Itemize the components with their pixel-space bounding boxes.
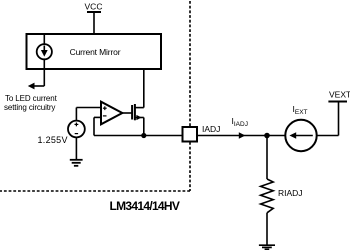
svg-text:1.255V: 1.255V — [37, 135, 67, 145]
svg-text:setting circuitry: setting circuitry — [4, 103, 55, 112]
svg-text:VCC: VCC — [85, 2, 103, 12]
svg-text:LM3414/14HV: LM3414/14HV — [110, 199, 180, 213]
svg-text:To LED current: To LED current — [5, 94, 58, 103]
svg-text:VEXT: VEXT — [329, 90, 350, 100]
svg-text:Current Mirror: Current Mirror — [70, 47, 121, 57]
svg-text:RIADJ: RIADJ — [278, 188, 303, 198]
svg-text:IADJ: IADJ — [202, 124, 220, 134]
